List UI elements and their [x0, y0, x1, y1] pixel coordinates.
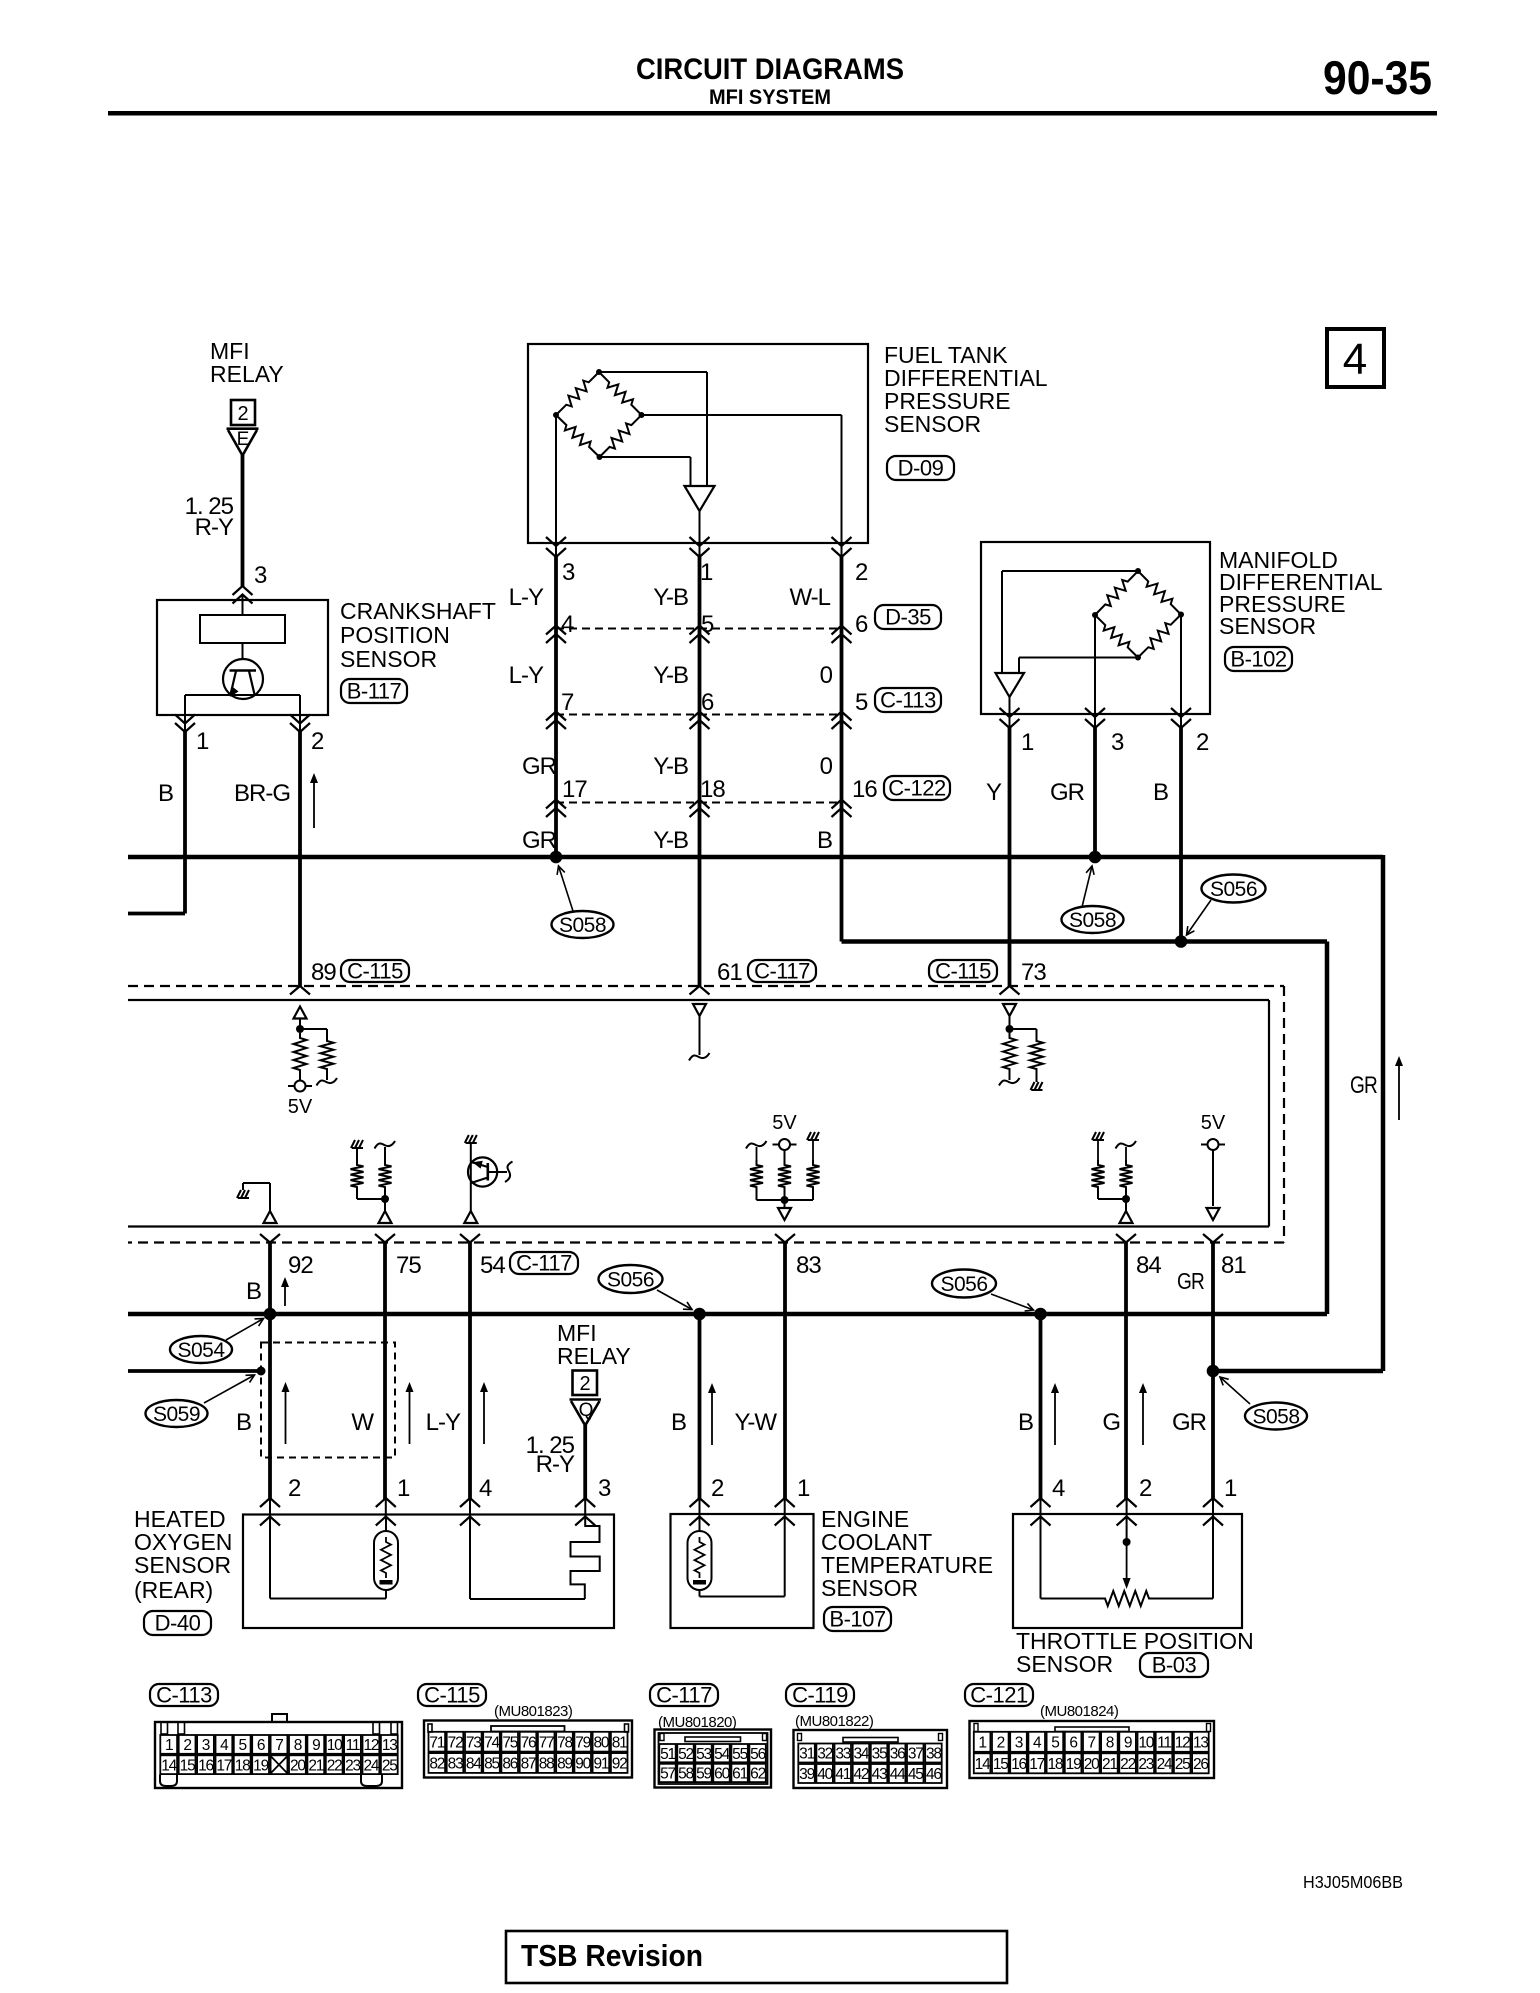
ECU resistor to ground (pin 73 right) [1010, 1029, 1044, 1090]
svg-text:87: 87 [521, 1756, 536, 1773]
bus wire GR bottom to junction S058 [1213, 1369, 1383, 1374]
svg-text:E: E [237, 429, 250, 450]
svg-text:POSITION: POSITION [340, 622, 450, 648]
wire fuel bridge right node to pin 2 [642, 415, 842, 543]
svg-text:32: 32 [817, 1746, 832, 1763]
svg-text:S058: S058 [1069, 909, 1116, 932]
signal arrow (oxygen pin4 wire) [480, 1382, 488, 1444]
chevrons oxygen pin 2 [260, 1498, 280, 1526]
label 89 [311, 959, 336, 986]
header rule [108, 111, 1437, 116]
svg-text:76: 76 [521, 1734, 536, 1751]
svg-text:C-113: C-113 [156, 1683, 212, 1708]
label B (manifold) [1153, 779, 1169, 806]
chevrons fuel pin 2 [832, 537, 852, 557]
svg-text:SENSOR: SENSOR [340, 646, 437, 672]
svg-text:RELAY: RELAY [210, 361, 284, 387]
svg-text:89: 89 [311, 959, 336, 986]
ECU driver transistor (pin 54) [465, 1135, 513, 1211]
label coolant pin 1 [797, 1475, 810, 1502]
svg-text:C-121: C-121 [970, 1683, 1028, 1708]
label THROTTLE POSITION SENSOR [1016, 1628, 1254, 1677]
junction dot S056 coolant [693, 1308, 706, 1321]
svg-text:(MU801824): (MU801824) [1040, 1703, 1119, 1720]
chevrons C-122 crossing wire2 [690, 800, 710, 818]
label W [351, 1409, 374, 1436]
label 0 row3 [820, 753, 833, 780]
svg-text:83: 83 [448, 1756, 463, 1773]
label oxygen pin 3 [598, 1475, 611, 1502]
label 1.25 R-Y (bottom) [526, 1432, 575, 1478]
svg-text:0: 0 [820, 662, 833, 689]
label 75 [396, 1252, 421, 1279]
chevrons C-113 crossing wire3 [832, 712, 852, 730]
signal arrow (throttle pin4 wire) [1051, 1383, 1059, 1445]
crankshaft position sensor box B-117 [157, 600, 328, 715]
label 5 (D-35 pin) [701, 611, 714, 638]
ECU input triangle pin 61 [693, 1004, 706, 1055]
svg-text:56: 56 [750, 1746, 765, 1763]
coolant sensor internal wires [700, 1516, 785, 1597]
svg-text:Q: Q [579, 1400, 594, 1421]
svg-text:GR: GR [522, 827, 557, 854]
signal arrow GR right [1395, 1056, 1403, 1120]
label throttle pin 1 [1224, 1475, 1237, 1502]
junction dot S058 fuel [550, 851, 563, 864]
svg-text:7: 7 [561, 689, 574, 716]
wire B bus to throttle sensor pin 4 [1039, 1314, 1043, 1516]
svg-text:3: 3 [202, 1737, 210, 1754]
ECU node dot pin 89 [296, 1025, 304, 1033]
svg-text:78: 78 [557, 1734, 572, 1751]
svg-text:5: 5 [1051, 1735, 1059, 1752]
label GR right side [1350, 1072, 1378, 1099]
svg-text:L-Y: L-Y [509, 584, 544, 611]
label manifold pin 3 [1111, 729, 1124, 756]
splice label S058 (left) [552, 866, 614, 938]
svg-text:92: 92 [288, 1252, 313, 1279]
ECU node dot pin 75 [381, 1195, 389, 1211]
throttle wiper [1123, 1516, 1131, 1589]
chevrons fuel pin 1 [690, 537, 710, 557]
fork ECU pin 75 [375, 1234, 395, 1243]
svg-text:BR-G: BR-G [234, 780, 290, 807]
svg-text:2: 2 [311, 728, 324, 755]
coolant thermistor capsule [688, 1531, 712, 1590]
svg-text:C-122: C-122 [888, 776, 946, 801]
svg-text:34: 34 [853, 1746, 869, 1763]
label oxygen pin 4 [479, 1475, 492, 1502]
label ENGINE COOLANT TEMPERATURE SENSOR [821, 1506, 993, 1601]
chevrons oxygen pin 3 [575, 1498, 595, 1526]
svg-text:14: 14 [161, 1757, 177, 1774]
svg-text:75: 75 [502, 1734, 517, 1751]
oxygen sensing element meander [571, 1516, 600, 1599]
svg-text:12: 12 [363, 1737, 378, 1754]
svg-text:57: 57 [660, 1766, 675, 1783]
fork ECU pin 89 [290, 986, 310, 995]
wire stub B to left (off page) [128, 912, 185, 916]
wire B ECU pin92 to oxygen sensor pin2 [268, 1243, 272, 1517]
svg-text:6: 6 [1069, 1735, 1077, 1752]
label HEATED OXYGEN SENSOR (REAR) [134, 1506, 232, 1603]
label manifold pin 2 [1196, 729, 1209, 756]
label B (throttle pin4 wire) [1018, 1409, 1034, 1436]
connector label D-35 [875, 605, 941, 630]
splice label S056 (top) [1187, 875, 1266, 936]
svg-text:45: 45 [908, 1766, 923, 1783]
connector label C-115 (pinout) [418, 1683, 486, 1708]
svg-text:C-115: C-115 [347, 959, 403, 984]
label Y-B row2 [653, 662, 688, 689]
svg-text:3: 3 [254, 562, 267, 589]
svg-text:61: 61 [732, 1766, 747, 1783]
label 6 (C-113 pin) [701, 689, 714, 716]
chevrons D-35 crossing Y-B [690, 626, 710, 644]
chevrons crankshaft pin 1 [175, 715, 195, 733]
svg-text:22: 22 [1120, 1756, 1135, 1773]
svg-text:R-Y: R-Y [195, 514, 234, 541]
svg-text:R-Y: R-Y [536, 1451, 575, 1478]
svg-text:16: 16 [852, 776, 877, 803]
svg-text:73: 73 [1021, 959, 1046, 986]
ECU resistors (pin 84) [1092, 1132, 1137, 1199]
svg-text:D-09: D-09 [898, 456, 944, 481]
in-line connector D-35 dashed row [556, 628, 842, 630]
wire W ECU pin75 to oxygen sensor pin1 [383, 1243, 388, 1517]
svg-text:6: 6 [257, 1737, 265, 1754]
svg-text:39: 39 [799, 1766, 814, 1783]
svg-text:4: 4 [1343, 335, 1367, 384]
ECU comparator resistor (pin 89) [300, 1029, 337, 1086]
label throttle pin 4 [1052, 1475, 1065, 1502]
label GR row4 [522, 827, 557, 854]
svg-text:GR: GR [1177, 1268, 1204, 1294]
svg-text:81: 81 [1221, 1252, 1246, 1279]
svg-text:GR: GR [1172, 1409, 1207, 1436]
splice label S056 (throttle) [932, 1270, 1034, 1312]
svg-text:5V: 5V [1201, 1112, 1226, 1134]
svg-text:42: 42 [853, 1766, 868, 1783]
wire fuel amp output to pin 1 [699, 511, 701, 543]
chevrons coolant pin 1 [775, 1498, 795, 1526]
svg-text:53: 53 [696, 1746, 711, 1763]
label Y-B row1 [653, 584, 688, 611]
chevrons C-122 crossing wire1 [546, 800, 566, 818]
svg-text:58: 58 [678, 1766, 693, 1783]
chevrons C-113 crossing wire2 [690, 712, 710, 730]
svg-text:14: 14 [975, 1756, 991, 1773]
svg-text:15: 15 [993, 1756, 1008, 1773]
ECU input triangle pin 89 [294, 1007, 307, 1030]
svg-text:1: 1 [196, 728, 209, 755]
svg-text:1: 1 [797, 1475, 810, 1502]
label 4 (D-35 pin) [561, 611, 574, 638]
svg-text:2: 2 [237, 403, 248, 425]
svg-text:41: 41 [835, 1766, 850, 1783]
svg-text:G: G [1102, 1409, 1121, 1436]
label 83 [796, 1252, 821, 1279]
svg-text:90: 90 [575, 1756, 591, 1773]
svg-text:S056: S056 [1210, 878, 1257, 901]
ECU output triangle pin 84 [1120, 1211, 1133, 1223]
label oxygen pin 2 [288, 1475, 301, 1502]
svg-text:S056: S056 [940, 1273, 987, 1296]
label (MU801824) [1040, 1703, 1119, 1720]
bus wire B horizontal (bus2) [842, 939, 1328, 944]
oxygen sensor internal wire pin4 [470, 1516, 585, 1599]
oxygen heater capsule leads [380, 1516, 386, 1599]
crankshaft sensor internal bottom wire [185, 695, 300, 715]
svg-text:62: 62 [750, 1766, 765, 1783]
ECU ground trace (pin 92) [237, 1183, 277, 1223]
svg-text:C-117: C-117 [656, 1683, 712, 1708]
label 16 (C-122 pin) [852, 776, 877, 803]
connector label C-117 (pinout) [650, 1683, 718, 1708]
svg-text:B-102: B-102 [1230, 647, 1286, 672]
label FUEL TANK DIFFERENTIAL PRESSURE SENSOR [884, 342, 1048, 437]
svg-text:S056: S056 [607, 1268, 654, 1291]
svg-text:SENSOR: SENSOR [821, 1575, 918, 1601]
junction dot S058 manifold [1089, 851, 1102, 864]
junction dot S058 right [1207, 1365, 1220, 1378]
svg-text:2: 2 [1196, 729, 1209, 756]
label throttle pin 2 [1139, 1475, 1152, 1502]
svg-text:83: 83 [796, 1252, 821, 1279]
label Y-B row3 [653, 753, 688, 780]
wire manifold bottom node to amp [1019, 658, 1138, 674]
chevrons oxygen pin 1 [376, 1498, 396, 1526]
label pin 3 crankshaft sensor [254, 562, 267, 589]
wire manifold amp output to pin 1 [1009, 697, 1011, 714]
svg-text:18: 18 [1047, 1756, 1062, 1773]
svg-text:90-35: 90-35 [1323, 51, 1432, 104]
wire fuel bridge top node to amp input [599, 372, 707, 486]
label B row4 [817, 827, 833, 854]
svg-text:(MU801823): (MU801823) [494, 1703, 573, 1720]
wire B crankshaft pin1 down [184, 715, 186, 914]
label 73 [1021, 959, 1046, 986]
svg-text:8: 8 [294, 1737, 302, 1754]
label 0 row2 [820, 662, 833, 689]
fuel tank sensor bridge resistor bottom-right [600, 415, 642, 457]
manifold bridge resistor top-right [1138, 571, 1181, 615]
oxygen sensor internal wire pin2 [270, 1516, 386, 1599]
svg-text:24: 24 [363, 1757, 379, 1774]
svg-text:1: 1 [397, 1475, 410, 1502]
chevrons throttle pin 1 [1203, 1498, 1223, 1526]
svg-text:C-115: C-115 [935, 959, 991, 984]
svg-text:5V: 5V [772, 1112, 797, 1134]
svg-text:43: 43 [872, 1766, 887, 1783]
label B (crankshaft pin1 wire) [158, 780, 174, 807]
svg-text:46: 46 [926, 1766, 941, 1783]
ECU open-end squiggle (pin 61) [689, 1053, 710, 1061]
wire B bus to coolant sensor pin 2 [698, 1314, 702, 1516]
wire BR-G crankshaft pin2 down to ECU pin 89 [299, 715, 301, 986]
svg-text:17: 17 [216, 1757, 231, 1774]
label 84 [1136, 1252, 1161, 1279]
label L-Y (oxygen pin4 wire) [426, 1409, 461, 1436]
svg-text:B-117: B-117 [347, 679, 402, 704]
svg-text:B-03: B-03 [1152, 1653, 1197, 1678]
signal arrow (oxygen pin1 wire) [406, 1382, 414, 1444]
connector label C-115 (pin 73) [929, 959, 997, 984]
wire fuel bridge left node to pin 3 [555, 415, 557, 543]
label B above bus (pin 92 wire) [246, 1278, 262, 1305]
crankshaft sensor internal wire coil to transistor [242, 643, 244, 660]
manifold bridge node dots [1092, 568, 1184, 661]
wire manifold left node to pin 3 [1094, 615, 1096, 714]
svg-text:92: 92 [612, 1756, 627, 1773]
label B (coolant pin2 wire) [671, 1409, 687, 1436]
header title text [636, 53, 904, 109]
svg-text:D-40: D-40 [155, 1611, 201, 1636]
chevrons coolant pin 2 [690, 1498, 710, 1526]
in-line connector C-113 dashed row [556, 714, 842, 716]
svg-text:Y-B: Y-B [653, 584, 688, 611]
svg-text:13: 13 [382, 1737, 397, 1754]
fuel tank bridge node dots [553, 369, 645, 460]
fork ECU pin 81 [1203, 1234, 1223, 1243]
svg-text:W: W [351, 1409, 374, 1436]
svg-text:L-Y: L-Y [509, 662, 544, 689]
label Y-B row4 [653, 827, 688, 854]
wire GR manifold pin3 to bus S058 [1094, 714, 1096, 857]
svg-text:54: 54 [480, 1252, 505, 1279]
fork ECU pin 92 [260, 1234, 280, 1243]
signal arrow pin 92 wire [281, 1277, 289, 1306]
svg-text:L-Y: L-Y [426, 1409, 461, 1436]
svg-text:1: 1 [1021, 729, 1034, 756]
wire B ECU pin83 to coolant sensor pin1 [783, 1243, 787, 1517]
label GR row3 [522, 753, 557, 780]
svg-text:11: 11 [1157, 1735, 1171, 1752]
svg-text:B: B [671, 1409, 687, 1436]
chevrons fuel pin 3 [546, 537, 566, 557]
svg-text:D-35: D-35 [885, 605, 931, 630]
fuel tank sensor bridge resistor bottom-left [556, 415, 600, 457]
chevrons throttle pin 4 [1031, 1498, 1051, 1526]
label fuel pin 3 [562, 559, 575, 586]
svg-text:19: 19 [1066, 1756, 1081, 1773]
svg-text:2: 2 [997, 1735, 1005, 1752]
svg-text:MFI SYSTEM: MFI SYSTEM [709, 86, 831, 109]
chevrons throttle pin 2 [1117, 1498, 1137, 1526]
svg-text:(REAR): (REAR) [134, 1577, 213, 1603]
oxygen heater element capsule [374, 1531, 398, 1590]
svg-text:91: 91 [593, 1756, 608, 1773]
label L-Y row2 [509, 662, 544, 689]
svg-text:B: B [246, 1278, 262, 1305]
signal arrow (coolant pin2 wire) [708, 1383, 716, 1445]
ECU dashed border [128, 986, 1284, 1243]
chevrons manifold pin 1 [1000, 708, 1020, 728]
svg-text:SENSOR: SENSOR [134, 1552, 231, 1578]
wire GR ECU pin81 to throttle sensor pin1 [1211, 1243, 1215, 1517]
connector label C-113 (pinout) [150, 1683, 218, 1708]
label GR (throttle pin1 wire) [1172, 1409, 1207, 1436]
svg-text:1: 1 [1224, 1475, 1237, 1502]
svg-text:B: B [236, 1409, 252, 1436]
svg-text:88: 88 [539, 1756, 554, 1773]
svg-text:4: 4 [561, 611, 574, 638]
svg-text:31: 31 [799, 1746, 814, 1763]
svg-text:B: B [817, 827, 833, 854]
svg-text:1: 1 [978, 1735, 986, 1752]
label H3J05M06BB [1303, 1872, 1403, 1892]
svg-text:W-L: W-L [789, 584, 830, 611]
label 92 [288, 1252, 313, 1279]
junction dot S054 [264, 1308, 277, 1321]
label MFI RELAY (top) [210, 338, 284, 387]
svg-text:17: 17 [1029, 1756, 1044, 1773]
splice label S054 [170, 1319, 264, 1364]
fork ECU pin 84 [1116, 1234, 1136, 1243]
signal arrow on BR-G wire [310, 773, 318, 828]
svg-text:15: 15 [180, 1757, 195, 1774]
svg-text:Y-B: Y-B [653, 662, 688, 689]
splice label S058 (manifold) [1062, 866, 1124, 933]
svg-text:80: 80 [593, 1734, 609, 1751]
svg-text:74: 74 [484, 1734, 500, 1751]
fork ECU pin 83 [775, 1234, 795, 1243]
label CRANKSHAFT POSITION SENSOR [340, 598, 496, 672]
svg-text:21: 21 [308, 1757, 323, 1774]
svg-text:B-107: B-107 [829, 1607, 885, 1632]
ECU output triangle pin 75 [379, 1211, 392, 1223]
label W-L row1 [789, 584, 830, 611]
header page number 90-35 [1323, 51, 1432, 104]
shielded cable dashed box [261, 1343, 395, 1458]
connector pinout C-117 [655, 1730, 772, 1788]
connector label B-03 [1140, 1653, 1208, 1678]
junction dot S059 [257, 1367, 266, 1376]
ECU node dot pin 73 [1006, 1025, 1014, 1033]
chevrons D-35 crossing W-L [832, 626, 852, 644]
wire 1.25 R-Y MFI relay to oxygen heater pin 3 [583, 1425, 587, 1516]
svg-text:38: 38 [926, 1746, 941, 1763]
junction dot S056 throttle [1034, 1308, 1047, 1321]
svg-text:22: 22 [327, 1757, 342, 1774]
svg-text:40: 40 [817, 1766, 833, 1783]
throttle potentiometer track resistor [1041, 1516, 1214, 1606]
label pin 2 [311, 728, 324, 755]
svg-text:23: 23 [1138, 1756, 1153, 1773]
label coolant pin 2 [711, 1475, 724, 1502]
svg-text:3: 3 [1015, 1735, 1023, 1752]
fuel tank differential pressure sensor box D-09 [528, 344, 868, 543]
svg-text:55: 55 [732, 1746, 747, 1763]
svg-text:5: 5 [238, 1737, 246, 1754]
label B (oxygen pin2 wire) [236, 1409, 252, 1436]
label fuel pin 2 [855, 559, 868, 586]
label fuel pin 1 [700, 559, 713, 586]
label MANIFOLD DIFFERENTIAL PRESSURE SENSOR [1219, 547, 1383, 639]
svg-text:C-115: C-115 [424, 1683, 480, 1708]
svg-text:3: 3 [562, 559, 575, 586]
wire G ECU pin84 to throttle sensor pin2 [1124, 1243, 1128, 1517]
svg-text:26: 26 [1193, 1756, 1208, 1773]
svg-text:0: 0 [820, 753, 833, 780]
fork ECU pin 54 [460, 1234, 480, 1243]
fuel tank sensor amplifier triangle [685, 486, 715, 511]
ECU 5V source circle (pin 89) [288, 1081, 313, 1119]
svg-text:20: 20 [290, 1757, 306, 1774]
label BR-G [234, 780, 290, 807]
svg-text:23: 23 [345, 1757, 360, 1774]
connector label B-117 [341, 679, 407, 704]
